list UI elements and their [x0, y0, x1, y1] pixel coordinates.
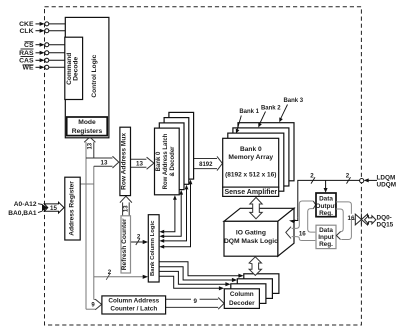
svg-text:Reg.: Reg. [319, 241, 333, 248]
svg-text:& Decoder: & Decoder [170, 146, 176, 177]
bus: mode register 13 shaft [93, 142, 95, 158]
wire: bank address vertical [93, 166, 95, 299]
bus: 8192 row lines to memory array [194, 158, 217, 160]
svg-text:Bank Column Logic: Bank Column Logic [150, 220, 156, 276]
svg-text:2: 2 [310, 173, 314, 180]
DQ bidirectional arrow [365, 216, 376, 224]
svg-text:Reg.: Reg. [319, 210, 333, 217]
svg-text:IO Gating: IO Gating [236, 230, 266, 237]
IO gating 3D box top face [224, 208, 294, 221]
bus: 9-bit into column address counter [94, 299, 95, 301]
svg-text:8192: 8192 [199, 162, 213, 168]
bus banner 15 into address register [44, 202, 64, 213]
svg-text:Mode: Mode [78, 119, 96, 126]
bus: read path IO gating to data output reg (fat outline) [292, 201, 314, 228]
svg-text:A0-A12: A0-A12 [14, 201, 37, 208]
svg-text:Bank 0: Bank 0 [240, 146, 262, 153]
bus: 9-bit counter to column decoder [166, 298, 219, 300]
svg-text:Bank 2: Bank 2 [261, 105, 281, 111]
svg-text:13: 13 [124, 205, 130, 212]
input RAS# [19, 49, 65, 57]
svg-text:CLK: CLK [20, 28, 34, 35]
svg-text:Registers: Registers [72, 128, 103, 135]
IO gating DQM mask logic front face [224, 221, 278, 256]
svg-text:2: 2 [346, 173, 350, 180]
sense amplifier box [223, 187, 279, 196]
wire: address register output stub [80, 183, 93, 185]
svg-text:Address Register: Address Register [68, 181, 75, 236]
bus: refresh counter 13 shaft [122, 202, 124, 215]
svg-text:13: 13 [87, 142, 93, 149]
svg-text:13: 13 [101, 160, 108, 167]
LDQM input circle [360, 179, 364, 183]
slash + label 2 (right) [347, 177, 351, 183]
svg-text:DQ0-: DQ0- [377, 215, 392, 222]
data output register box [316, 193, 336, 217]
svg-text:(8192 x 512 x 16): (8192 x 512 x 16) [225, 171, 276, 178]
svg-text:2: 2 [137, 233, 141, 240]
svg-text:WE: WE [23, 65, 34, 72]
column address counter / latch box [102, 296, 166, 314]
input WE# [23, 65, 65, 72]
svg-text:9: 9 [193, 298, 197, 305]
svg-text:LDQM: LDQM [377, 174, 396, 181]
svg-text:Data: Data [319, 196, 333, 203]
bus: write path data input reg to IO gating (fat outline) [292, 237, 316, 241]
svg-text:Bank 3: Bank 3 [283, 98, 303, 104]
svg-text:Output: Output [316, 203, 338, 210]
svg-text:16: 16 [348, 215, 355, 222]
wire: bank control to column decoder S3 [159, 271, 228, 284]
svg-text:16: 16 [299, 230, 306, 237]
svg-text:CAS: CAS [19, 58, 34, 65]
dashed border segment over DQ pad [360, 214, 362, 226]
svg-text:BA0,BA1: BA0,BA1 [8, 210, 37, 217]
svg-text:Counter / Latch: Counter / Latch [110, 306, 157, 313]
wire: bank control to column decoder S1 [159, 262, 241, 276]
wire: bank control to row latch L4 [163, 184, 191, 247]
wire: LDQM/UDQM line [298, 180, 364, 217]
wire: bank control to row latch L1 [163, 199, 175, 232]
row address mux box [120, 127, 131, 195]
bus: data output reg to DQ pads (fat outline) [336, 202, 351, 240]
column decoder stack (banks 3,2,1) [244, 274, 279, 294]
wire: bank control to row latch L2 [163, 194, 181, 236]
input CS# [24, 42, 65, 49]
wire: bank address 2-bit line to bank control [104, 276, 145, 278]
memory array stack (banks 3,2,1) [238, 123, 294, 181]
input CKE [19, 21, 65, 28]
mode registers box [67, 117, 108, 136]
column decoder box [224, 289, 259, 309]
wire: DQM branch to data output reg [325, 180, 327, 189]
svg-text:Memory Array: Memory Array [228, 154, 273, 161]
svg-text:Column: Column [230, 291, 254, 298]
svg-text:Column Address: Column Address [108, 298, 159, 305]
command decode box [65, 37, 83, 99]
wire: stub to DQ bowtie [347, 214, 355, 219]
bank 0 row address latch & decoder box [155, 128, 180, 195]
data input register box [316, 225, 336, 248]
wire: bank control to column decoder S4 [159, 276, 221, 288]
input A0-A12 / BA0,BA1 [8, 201, 64, 217]
svg-text:Control Logic: Control Logic [91, 54, 98, 97]
svg-text:2: 2 [108, 269, 112, 276]
svg-text:15: 15 [50, 205, 57, 212]
svg-text:Decode: Decode [73, 57, 80, 81]
svg-text:13: 13 [136, 161, 143, 168]
refresh counter box [121, 216, 131, 273]
wire: refresh to bank control 2-bit [131, 241, 146, 243]
double arrow: sense amp to IO gating [250, 197, 262, 218]
svg-text:Bank 0: Bank 0 [156, 151, 162, 171]
svg-text:Row Address Mux: Row Address Mux [121, 133, 128, 190]
svg-text:Input: Input [318, 234, 334, 241]
wire: bank control to row latch L3 [163, 189, 187, 241]
wire: bank control to column decoder S2 [159, 267, 234, 280]
chip boundary (dashed border) [45, 7, 362, 325]
double arrow: IO gating to column decoder [249, 257, 261, 276]
control logic box [65, 17, 109, 137]
svg-text:Sense Amplifier: Sense Amplifier [224, 189, 277, 196]
svg-text:CS: CS [24, 42, 34, 49]
bus: row mux to latch 13 [130, 158, 146, 160]
slash + label 2 (left) [311, 177, 315, 183]
bank 0 memory array box [223, 138, 279, 187]
svg-text:Data: Data [319, 227, 333, 234]
address register box [65, 177, 80, 240]
svg-text:Bank 1: Bank 1 [239, 109, 259, 115]
svg-text:Decoder: Decoder [229, 300, 255, 307]
DQ bowtie pad symbol [355, 214, 361, 225]
svg-text:Row Address Latch: Row Address Latch [163, 133, 169, 189]
bank row address latch stack (banks 3,2,1) [169, 112, 194, 179]
wire: address bus vertical to column counter [85, 142, 87, 309]
svg-text:UDQM: UDQM [377, 182, 397, 189]
svg-text:Refresh Counter: Refresh Counter [121, 218, 128, 270]
svg-text:DQM Mask Logic: DQM Mask Logic [224, 238, 278, 245]
svg-text:DQ15: DQ15 [377, 222, 394, 229]
input CLK [20, 28, 66, 35]
bus: address to row mux 13 [86, 157, 113, 159]
input CAS# [19, 57, 65, 65]
IO gating 3D box right face [278, 208, 294, 256]
bank column logic box [148, 215, 159, 282]
